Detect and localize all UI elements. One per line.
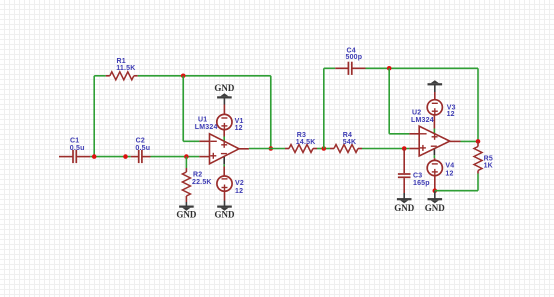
svg-text:0.5u: 0.5u [70, 145, 85, 152]
svg-text:GND: GND [214, 83, 235, 93]
voltage source V4 12 [427, 160, 454, 177]
capacitor C3 165p [398, 149, 430, 194]
svg-text:V2: V2 [235, 180, 244, 187]
wire C4 branch vertical [323, 68, 325, 148]
resistor R3 14.5K [285, 132, 317, 153]
resistor R4 54K [330, 132, 362, 153]
node junction R3-R4-C4 [322, 146, 327, 151]
capacitor C2 [131, 138, 151, 164]
wire R3 to R4 [317, 148, 330, 150]
wire R2 to ground [185, 202, 187, 206]
svg-text:GND: GND [425, 203, 446, 213]
node junction R4-C3-U2 [402, 146, 407, 151]
node junction top row [181, 74, 186, 79]
wire feedback down to U1 inverting input [183, 76, 199, 142]
node junction C1-C2-feedback [92, 154, 97, 159]
node junction U1 output [269, 146, 274, 151]
wire V3 to ground above [434, 85, 436, 100]
svg-text:C1: C1 [70, 138, 79, 145]
node junction C4 feedback [387, 66, 392, 71]
svg-text:1K: 1K [484, 163, 493, 170]
wire R5 bottom to V4 ground node [435, 174, 478, 191]
wire V2 to ground below [224, 191, 226, 206]
resistor R1 11.5K [106, 58, 138, 80]
ground under R2 [176, 207, 197, 220]
svg-text:500p: 500p [346, 54, 363, 61]
svg-text:11.5K: 11.5K [116, 65, 135, 72]
svg-text:54K: 54K [343, 139, 356, 146]
svg-text:LM324: LM324 [195, 124, 218, 131]
svg-text:R5: R5 [484, 155, 493, 162]
svg-text:V1: V1 [235, 118, 244, 125]
resistor R5 1K [474, 141, 493, 173]
capacitor C4 500p [335, 48, 365, 75]
svg-text:12: 12 [235, 125, 243, 132]
ground under V2 [215, 207, 236, 220]
wire R2 top lead [185, 157, 187, 168]
svg-text:R4: R4 [343, 132, 352, 139]
ground under C3 [394, 199, 415, 213]
wire C2 to U1 non-inverting input [151, 156, 200, 158]
svg-text:14.5K: 14.5K [296, 139, 316, 146]
wire feedback vertical left [93, 76, 95, 157]
svg-text:R2: R2 [193, 172, 202, 179]
node junction C2-R2-U1 [184, 154, 189, 159]
op-amp U2 LM324 [409, 110, 460, 161]
wire node to ground under V4 [434, 191, 436, 199]
op-amp U1 LM324 [195, 117, 249, 177]
svg-text:12: 12 [447, 111, 455, 118]
svg-text:R3: R3 [297, 132, 306, 139]
svg-text:GND: GND [176, 210, 197, 220]
wire top row right [138, 75, 271, 77]
wire V4 to ground node [434, 175, 436, 190]
wire U1 output to R3 [249, 148, 285, 150]
ground above V1 [214, 83, 235, 97]
wire top row down to U1 output row [270, 76, 272, 149]
svg-text:12: 12 [235, 188, 243, 195]
ground under V4 [425, 199, 446, 213]
svg-text:C3: C3 [413, 172, 422, 179]
wire input stub to C1 [59, 156, 73, 158]
wire V1 to ground above [223, 98, 225, 114]
wire R4 to U2 non-inverting input [362, 148, 409, 150]
svg-text:R1: R1 [117, 58, 126, 65]
wire U2 output to node [461, 140, 479, 142]
voltage source V2 12 [217, 176, 244, 195]
svg-text:U2: U2 [412, 110, 421, 117]
svg-text:165p: 165p [413, 180, 430, 187]
node junction mid main row [123, 154, 128, 159]
voltage source V3 12 [427, 100, 456, 118]
svg-text:LM324: LM324 [411, 117, 434, 124]
voltage source V1 12 [217, 114, 244, 132]
wire C4 row right [366, 68, 479, 141]
svg-text:U1: U1 [198, 117, 207, 124]
ground above V3 [428, 80, 443, 84]
svg-text:0.5u: 0.5u [135, 145, 150, 152]
svg-text:V4: V4 [445, 162, 454, 169]
svg-text:GND: GND [215, 210, 236, 220]
svg-text:12: 12 [445, 170, 453, 177]
svg-text:22.5K: 22.5K [192, 179, 212, 186]
capacitor C1 [70, 138, 91, 164]
wire top row left [94, 75, 106, 77]
wire feedback down to U2 inverting input [389, 68, 409, 134]
svg-text:GND: GND [394, 203, 415, 213]
resistor R2 22.5K [182, 168, 211, 202]
wire C1 to C2 (main row) [90, 156, 130, 158]
svg-text:C2: C2 [136, 138, 145, 145]
node junction U2 output [476, 139, 481, 144]
wire C3 to ground [403, 193, 405, 199]
node junction V4-GND-R5 [433, 188, 438, 193]
wire C4 row left [324, 67, 335, 69]
